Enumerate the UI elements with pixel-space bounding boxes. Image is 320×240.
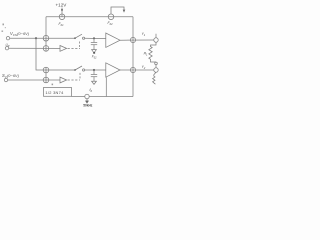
- svg-text:R1: R1: [144, 52, 148, 57]
- right drop wire (common output bus): [132, 17, 134, 97]
- svg-text:SV(0~6V): SV(0~6V): [2, 73, 20, 79]
- wire input 2: [9, 47, 60, 49]
- switch S4: [43, 77, 49, 83]
- +12V feed wire: [61, 8, 63, 17]
- svg-text:50kHz: 50kHz: [83, 103, 93, 107]
- feedback wire from U2 lower vertex: [105, 77, 107, 96]
- wire to op-amp 1: [85, 37, 106, 39]
- label Y2: [142, 65, 146, 70]
- label Sv(0~6V): [2, 73, 20, 79]
- svg-text:F02: F02: [92, 55, 97, 60]
- svg-text:F01: F01: [59, 22, 65, 27]
- IC label box 1/2 3N74: [44, 88, 72, 97]
- capacitor C2: [93, 70, 95, 74]
- switch S1: [43, 35, 49, 41]
- stub above Y1: [155, 34, 157, 38]
- bus switch node B1: [130, 37, 135, 42]
- label Vcs(0~6V): [10, 31, 30, 37]
- output wire U2: [120, 69, 154, 71]
- wire input 1: [10, 37, 75, 39]
- output wire U1: [120, 39, 154, 41]
- oscillator element F02 on rail: [108, 14, 114, 20]
- svg-text:VCS(0~6V): VCS(0~6V): [10, 31, 30, 37]
- bottom rail wire: [72, 96, 85, 98]
- dashed control link 2: [68, 79, 80, 81]
- input terminal 3: [4, 78, 7, 81]
- wiper arrow of F02: [111, 7, 124, 14]
- terminal Y1: [154, 38, 158, 42]
- label Up: [6, 43, 10, 48]
- label R1: [144, 52, 148, 57]
- contact K1: [83, 37, 85, 39]
- svg-text:Y1: Y1: [142, 32, 146, 37]
- svg-text:f0: f0: [90, 88, 93, 93]
- buffer amp A2: [60, 77, 67, 83]
- wire to op-amp 2: [85, 69, 106, 71]
- svg-text:F02: F02: [108, 21, 114, 26]
- op-amp U1: [106, 33, 120, 47]
- switch S3: [43, 67, 49, 73]
- buffer amp A1: [60, 46, 67, 52]
- output terminal fo: [85, 94, 89, 98]
- resistor R1: [149, 42, 156, 62]
- wire to Y2 terminal: [155, 65, 157, 68]
- svg-text:1/2 3N74: 1/2 3N74: [45, 90, 64, 95]
- ground 1: [92, 50, 97, 53]
- chopper switch lever K1: [75, 34, 82, 38]
- contact K2: [83, 69, 85, 71]
- input terminal Vcs: [6, 37, 9, 40]
- junction cap C1: [93, 37, 95, 39]
- page speckle marks: [3, 24, 4, 26]
- dashed control link 1: [68, 47, 80, 49]
- svg-text:+12V: +12V: [56, 3, 68, 8]
- wire between S3 and S4: [45, 67, 47, 82]
- power +12V label: [56, 3, 68, 8]
- stray mark above IC box: [52, 84, 54, 86]
- label f02 small: [92, 52, 97, 59]
- left drop wire to switch column: [45, 17, 47, 51]
- output arrow: [86, 99, 88, 101]
- junction cap C2: [93, 69, 95, 71]
- input terminal 2: [5, 47, 8, 50]
- label fo: [90, 88, 93, 93]
- terminal Y2: [154, 68, 158, 72]
- label Y1: [142, 32, 146, 37]
- top rail wire: [46, 16, 133, 18]
- label F01: [59, 22, 65, 27]
- oscillator element F01 on rail: [59, 14, 65, 20]
- ground 2: [92, 81, 97, 84]
- branch wire to lower channel: [36, 38, 75, 70]
- resistor R2 tail below Y2: [153, 72, 156, 84]
- output caption: [83, 103, 93, 107]
- label F02: [108, 21, 114, 26]
- op-amp U2: [106, 63, 120, 77]
- capacitor C1: [93, 38, 95, 42]
- bus switch node B2: [130, 67, 135, 72]
- switch S2: [43, 46, 49, 52]
- +12V junction dot: [61, 9, 63, 11]
- wire input 3: [8, 79, 60, 81]
- junction node A: [35, 37, 37, 39]
- junction node R1/Y2: [155, 62, 158, 65]
- chopper switch lever K2: [75, 66, 82, 70]
- svg-text:Y2: Y2: [142, 65, 146, 70]
